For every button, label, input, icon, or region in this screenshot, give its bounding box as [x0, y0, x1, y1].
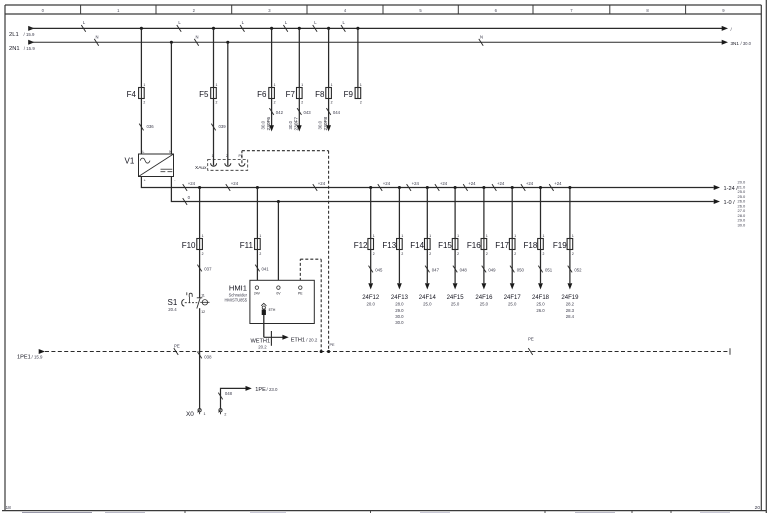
- svg-text:+24: +24: [497, 181, 505, 186]
- svg-text:2: 2: [274, 101, 276, 105]
- wire to node 24F18: [540, 250, 542, 284]
- wire to node 24F19: [569, 250, 571, 284]
- node 1PE outgoing: [246, 386, 252, 391]
- svg-text:+24: +24: [231, 181, 239, 186]
- wire 0 rail from V1:-: [171, 177, 713, 202]
- svg-text:1: 1: [202, 234, 204, 238]
- power supply V1: [139, 154, 174, 177]
- svg-text:2: 2: [572, 252, 574, 256]
- svg-text:V1: V1: [125, 157, 135, 166]
- wire to node 24F13: [398, 250, 400, 284]
- wire 039 F5 to XAux:1: [213, 99, 215, 166]
- svg-text:29.0: 29.0: [395, 308, 404, 313]
- svg-text:+24: +24: [468, 181, 476, 186]
- junction L1/F9: [356, 27, 359, 30]
- svg-text:045: 045: [375, 267, 383, 272]
- svg-text:30.0: 30.0: [288, 120, 293, 129]
- junction +24 rail: [568, 186, 571, 189]
- svg-text:1: 1: [216, 83, 218, 87]
- junction +24 rail: [539, 186, 542, 189]
- junction +24 rail: [511, 186, 514, 189]
- svg-text:30.0: 30.0: [738, 222, 747, 227]
- svg-text:/ 23.0: / 23.0: [267, 387, 279, 392]
- node 1-0 outgoing: [714, 199, 720, 204]
- svg-text:F8: F8: [315, 90, 325, 99]
- svg-text:28.3: 28.3: [566, 308, 575, 313]
- junction +24 rail: [398, 186, 401, 189]
- svg-text:1: 1: [274, 83, 276, 87]
- junction +24 rail: [198, 186, 201, 189]
- svg-text:/ 15.9: / 15.9: [24, 32, 36, 37]
- svg-text:F14: F14: [410, 241, 424, 250]
- svg-text:25.0: 25.0: [480, 302, 489, 307]
- svg-text:N: N: [195, 35, 198, 40]
- svg-text:28.0: 28.0: [395, 302, 404, 307]
- svg-text:1PE: 1PE: [255, 387, 266, 393]
- svg-text:1: 1: [143, 83, 145, 87]
- svg-text:2: 2: [373, 252, 375, 256]
- svg-text:25.0: 25.0: [451, 302, 460, 307]
- svg-text:1: 1: [301, 83, 303, 87]
- svg-text:1: 1: [331, 83, 333, 87]
- svg-text:230F8: 230F8: [323, 117, 329, 131]
- svg-text:20.4: 20.4: [168, 307, 177, 312]
- svg-text:N: N: [480, 35, 483, 40]
- fuse F16: [483, 188, 485, 239]
- svg-text:048: 048: [460, 267, 468, 272]
- wire 044 / node 230F8 outgoing: [328, 99, 330, 127]
- wire N rail 2N1: [29, 41, 722, 43]
- svg-text:26.0: 26.0: [536, 308, 545, 313]
- svg-text:20.2: 20.2: [258, 344, 267, 349]
- svg-text:/ 30.0: / 30.0: [741, 41, 752, 46]
- node 24F12 outgoing: [368, 283, 373, 289]
- junction PE bus / HMI1 PE: [320, 350, 323, 353]
- svg-text:X0: X0: [186, 411, 194, 418]
- node 24F14 outgoing: [425, 283, 430, 289]
- fuse F19: [569, 188, 571, 239]
- junction L1/F8: [327, 27, 330, 30]
- svg-text:F7: F7: [286, 90, 296, 99]
- wire 038 S1 to X0:1: [199, 308, 201, 408]
- svg-text:+: +: [144, 178, 146, 182]
- terminal XAux:PE: [239, 163, 245, 166]
- svg-text:042: 042: [276, 110, 284, 115]
- wire ETH to ETH1: [263, 315, 265, 337]
- fuse F5: [213, 28, 215, 87]
- svg-text:1: 1: [259, 234, 261, 238]
- svg-text:24V: 24V: [254, 292, 261, 296]
- fuse F15: [454, 188, 456, 239]
- svg-text:F12: F12: [354, 241, 368, 250]
- svg-text:24F18: 24F18: [532, 295, 550, 301]
- junction +24 rail: [482, 186, 485, 189]
- junction +24 rail: [256, 186, 259, 189]
- svg-text:F11: F11: [240, 241, 254, 250]
- wire N rail to V1:N: [170, 42, 172, 154]
- wire L1 rail 2L1: [29, 27, 722, 29]
- svg-text:24F15: 24F15: [447, 295, 465, 301]
- fuse F18: [540, 188, 542, 239]
- svg-text:039: 039: [219, 124, 227, 129]
- wire 036 F4 to V1: [140, 99, 142, 155]
- svg-text:20: 20: [755, 505, 761, 511]
- terminal XAux:2: [225, 163, 231, 166]
- svg-text:037: 037: [204, 266, 212, 271]
- node 24F18 outgoing: [538, 283, 543, 289]
- fuse F9: [357, 28, 359, 87]
- svg-text:+24: +24: [412, 181, 420, 186]
- svg-text:F6: F6: [257, 90, 267, 99]
- svg-text:+24: +24: [318, 181, 326, 186]
- svg-text:L: L: [143, 150, 145, 154]
- svg-text:1: 1: [204, 412, 206, 416]
- pin HMI1:PE: [299, 286, 302, 289]
- node 1-24 outgoing: [714, 185, 720, 190]
- fuse F12: [370, 188, 372, 239]
- wire +24 rail from V1:+: [141, 177, 713, 188]
- svg-text:XAux: XAux: [195, 165, 207, 171]
- svg-text:F15: F15: [438, 241, 452, 250]
- svg-text:F18: F18: [524, 241, 538, 250]
- svg-text:050: 050: [517, 267, 525, 272]
- fuse F17: [511, 188, 513, 239]
- node 24F13 outgoing: [397, 283, 402, 289]
- node 24F15 outgoing: [453, 283, 458, 289]
- svg-text:1-0 /: 1-0 /: [724, 200, 736, 206]
- wire PE HMI1 to PE bus (dashed): [299, 259, 301, 286]
- svg-text:230F7: 230F7: [294, 117, 300, 131]
- svg-text:2: 2: [143, 101, 145, 105]
- node 2L1 incoming: [28, 26, 34, 31]
- wire 042 / node 230F6 outgoing: [271, 99, 273, 127]
- svg-text:+24: +24: [526, 181, 534, 186]
- wire to node 24F15: [454, 250, 456, 284]
- svg-text:N: N: [95, 35, 98, 40]
- node 24F17 outgoing: [510, 283, 515, 289]
- svg-text:25.0: 25.0: [423, 302, 432, 307]
- junction PE bus / XAux PE: [327, 350, 330, 353]
- svg-text:PE: PE: [298, 292, 303, 296]
- junction L1/F7: [298, 27, 301, 30]
- terminal XAux:1: [211, 163, 217, 166]
- svg-text:1: 1: [543, 234, 545, 238]
- svg-text:2: 2: [301, 101, 303, 105]
- svg-text:2: 2: [486, 252, 488, 256]
- svg-text:230F6: 230F6: [266, 117, 272, 131]
- svg-text:F19: F19: [553, 241, 567, 250]
- node ETH1 outgoing: [282, 335, 288, 340]
- terminal strip XAux: [208, 160, 248, 171]
- fuse F6: [271, 28, 273, 87]
- wire 048 X0:2 to 1PE: [221, 388, 246, 408]
- svg-text:2: 2: [224, 413, 226, 417]
- svg-text:1PE1: 1PE1: [17, 354, 31, 360]
- svg-text:24F13: 24F13: [391, 295, 409, 301]
- svg-text:2: 2: [514, 252, 516, 256]
- svg-text:1: 1: [486, 234, 488, 238]
- svg-text:1: 1: [401, 234, 403, 238]
- svg-text:F17: F17: [495, 241, 509, 250]
- svg-text:20.0: 20.0: [367, 302, 376, 307]
- svg-text:048: 048: [225, 391, 233, 396]
- cable WETH1: [270, 331, 272, 346]
- svg-text:3N1: 3N1: [731, 41, 740, 46]
- svg-text:30.0: 30.0: [317, 120, 322, 129]
- svg-text:F10: F10: [182, 241, 196, 250]
- svg-text:2: 2: [331, 101, 333, 105]
- svg-text:ETH1: ETH1: [291, 337, 305, 343]
- svg-text:Schneider: Schneider: [229, 292, 248, 297]
- junction N/XAux: [226, 41, 229, 44]
- node 24F19 outgoing: [568, 283, 573, 289]
- wire to node 24F14: [426, 250, 428, 284]
- wire to node 24F12: [370, 250, 372, 284]
- svg-text:HMI1: HMI1: [229, 284, 247, 293]
- svg-text:ETH: ETH: [269, 308, 276, 312]
- svg-text:28.2: 28.2: [566, 302, 575, 307]
- svg-text:25.0: 25.0: [536, 302, 545, 307]
- svg-text:PE: PE: [528, 336, 534, 341]
- node 2N1 incoming: [28, 40, 34, 45]
- svg-text:2: 2: [429, 252, 431, 256]
- svg-text:036: 036: [147, 124, 155, 129]
- node 1PE1 incoming: [39, 349, 45, 354]
- pin HMI1:24V: [255, 286, 258, 289]
- fuse F13: [398, 188, 400, 239]
- svg-text:1: 1: [572, 234, 574, 238]
- svg-text:2: 2: [401, 252, 403, 256]
- HMI panel HMI1: [250, 280, 314, 323]
- svg-text:051: 051: [545, 267, 553, 272]
- svg-text:18: 18: [6, 505, 12, 511]
- svg-text:1: 1: [360, 83, 362, 87]
- node 3N1 outgoing: [722, 40, 728, 45]
- svg-text:PE: PE: [330, 343, 336, 347]
- fuse F4: [140, 28, 142, 87]
- wire 043 / node 230F7 outgoing: [298, 99, 300, 127]
- svg-text:S1: S1: [168, 298, 178, 307]
- wire PE bus (dashed): [45, 351, 730, 353]
- junction N/V1: [170, 41, 173, 44]
- node 24F16 outgoing: [482, 283, 487, 289]
- svg-text:1: 1: [429, 234, 431, 238]
- svg-text:28.4: 28.4: [566, 314, 575, 319]
- wire 041 F11 to HMI1:24V: [256, 250, 258, 286]
- svg-text:2: 2: [202, 252, 204, 256]
- svg-text:24F14: 24F14: [419, 295, 437, 301]
- svg-text:F4: F4: [127, 90, 137, 99]
- ETH port HMI1: [261, 303, 266, 306]
- svg-text:0V: 0V: [276, 292, 281, 296]
- svg-text:PE: PE: [239, 154, 244, 158]
- wire 0 rail to HMI1:0V: [277, 202, 279, 286]
- svg-text:2: 2: [457, 252, 459, 256]
- junction +24 rail: [369, 186, 372, 189]
- svg-text:24F17: 24F17: [504, 295, 522, 301]
- svg-text:30.0: 30.0: [260, 120, 265, 129]
- svg-text:052: 052: [574, 267, 582, 272]
- fuse F8: [328, 28, 330, 87]
- svg-text:+24: +24: [440, 181, 448, 186]
- svg-text:+24: +24: [383, 181, 391, 186]
- wire PE XAux to PE bus (dashed): [241, 151, 243, 164]
- svg-text:041: 041: [262, 266, 270, 271]
- junction +24 rail: [454, 186, 457, 189]
- svg-text:1: 1: [373, 234, 375, 238]
- svg-text:+24: +24: [554, 181, 562, 186]
- svg-text:/ 20.2: / 20.2: [306, 337, 318, 342]
- svg-text:2: 2: [543, 252, 545, 256]
- svg-text:2: 2: [216, 101, 218, 105]
- wire to node 24F17: [511, 250, 513, 284]
- svg-text:+24: +24: [188, 181, 196, 186]
- svg-text:11: 11: [201, 294, 205, 298]
- svg-text:PE: PE: [174, 344, 180, 349]
- svg-text:24F16: 24F16: [475, 295, 493, 301]
- wire to node 24F16: [483, 250, 485, 284]
- svg-text:F16: F16: [467, 241, 481, 250]
- svg-text:1: 1: [212, 154, 214, 158]
- svg-text:F9: F9: [344, 90, 354, 99]
- fuse F14: [426, 188, 428, 239]
- svg-text:044: 044: [333, 110, 341, 115]
- svg-text:1: 1: [457, 234, 459, 238]
- svg-text:/ 15.9: / 15.9: [24, 46, 36, 51]
- svg-text:2: 2: [259, 252, 261, 256]
- svg-text:12: 12: [201, 310, 205, 314]
- fuse F11: [256, 188, 258, 239]
- terminal X0:2: [219, 409, 222, 412]
- svg-text:F13: F13: [382, 241, 396, 250]
- node 2L1 outgoing: [722, 26, 728, 31]
- svg-text:038: 038: [204, 355, 212, 360]
- svg-text:24F12: 24F12: [362, 295, 380, 301]
- svg-text:043: 043: [304, 110, 312, 115]
- svg-text:HMISTU855: HMISTU855: [224, 298, 247, 303]
- pin HMI1:0V: [277, 286, 280, 289]
- svg-text:049: 049: [488, 267, 496, 272]
- svg-text:047: 047: [432, 267, 440, 272]
- junction L1/F4: [140, 27, 143, 30]
- svg-text:1-24 /: 1-24 /: [724, 186, 739, 192]
- svg-text:30.0: 30.0: [395, 320, 404, 325]
- junction L1/F6: [270, 27, 273, 30]
- junction 0 rail / HMI1: [277, 200, 280, 203]
- wire 037 F10 to S1: [199, 250, 201, 298]
- svg-text:2: 2: [360, 101, 362, 105]
- wire N rail to XAux:2: [227, 42, 229, 165]
- svg-text:F5: F5: [199, 90, 209, 99]
- svg-text:25.0: 25.0: [508, 302, 517, 307]
- svg-text:1: 1: [514, 234, 516, 238]
- fuse F10: [199, 188, 201, 239]
- svg-text:/ 15.9: / 15.9: [32, 354, 44, 359]
- svg-text:2L1: 2L1: [9, 32, 19, 38]
- svg-text:30.0: 30.0: [395, 314, 404, 319]
- junction +24 rail: [426, 186, 429, 189]
- svg-text:2N1: 2N1: [9, 46, 20, 52]
- fuse F7: [298, 28, 300, 87]
- junction L1/F5: [212, 27, 215, 30]
- svg-text:24F19: 24F19: [561, 295, 579, 301]
